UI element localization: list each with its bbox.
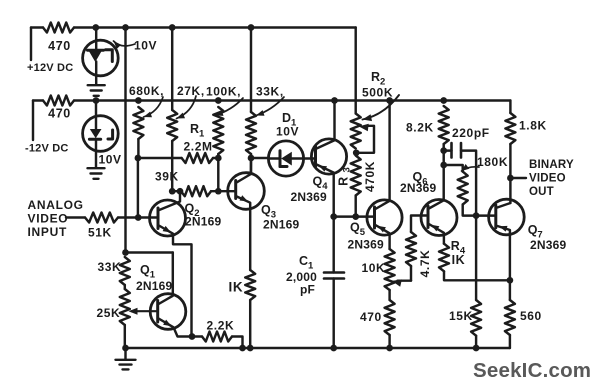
- svg-text:100K,: 100K,: [206, 85, 241, 99]
- resistor 560: [505, 300, 515, 335]
- type label 2N169 (Q1): [136, 279, 172, 293]
- Q2 emitter: [158, 225, 192, 337]
- wire 100K node down: [217, 158, 219, 191]
- capacitor C1 plates: [324, 273, 344, 279]
- svg-text:IK: IK: [452, 253, 466, 267]
- node junction C1 / ground bus: [330, 345, 337, 352]
- wire 180K top lead: [444, 165, 463, 172]
- value label 2000pF: [286, 270, 317, 297]
- watermark SeekIC.com: [473, 359, 591, 382]
- transistor Q7 circle: [489, 199, 525, 235]
- svg-text:pF: pF: [300, 283, 315, 297]
- Q6 base bar: [427, 206, 430, 228]
- wire 25K bottom to ground bus: [124, 325, 126, 348]
- transistor Q3 circle: [228, 173, 265, 210]
- wire divider link to Q1 collector: [126, 251, 173, 253]
- arrow 100K label: [215, 98, 243, 116]
- wire 2.2M right lead: [213, 157, 218, 159]
- wire 2.2M left lead: [138, 157, 182, 159]
- resistor 1.8K: [505, 113, 515, 144]
- reference label D1: [282, 111, 297, 129]
- reference label Q5: [350, 221, 366, 239]
- svg-text:2N169: 2N169: [263, 218, 299, 232]
- node junction Q2 collector / 39K: [177, 188, 184, 195]
- Q3 emitter: [236, 196, 251, 270]
- reference label Q7: [528, 223, 543, 241]
- resistor 180K: [458, 172, 468, 205]
- wire binary video out: [510, 177, 526, 179]
- wire 1.8K to Q7 collector: [509, 144, 511, 203]
- svg-text:2N369: 2N369: [291, 190, 327, 204]
- node junction -10V rail / zener 2: [93, 97, 100, 104]
- wire C1 bottom: [332, 279, 334, 349]
- resistor 470 (Q5 emitter): [385, 300, 395, 335]
- arrow 680K label: [144, 97, 164, 117]
- wire 680K bottom: [137, 139, 139, 158]
- wire 39K left lead: [172, 190, 181, 192]
- wire C1 top: [332, 217, 334, 273]
- node junction divider top: [122, 249, 129, 256]
- wire +12VDC input stub: [30, 28, 32, 61]
- svg-text:2N169: 2N169: [185, 215, 221, 229]
- D1 bent foot: [280, 165, 287, 168]
- svg-text:470: 470: [48, 107, 71, 121]
- Q3 emitter arrowhead: [240, 195, 249, 201]
- node junction 100K / 2.2M line: [215, 155, 222, 162]
- reference label Q4: [313, 175, 329, 193]
- wire 4.7K to Q6 base: [411, 216, 428, 233]
- diode D1 10V circle: [268, 141, 303, 176]
- resistor 33K (rail): [246, 112, 256, 154]
- svg-text:4.7K: 4.7K: [418, 250, 432, 278]
- value label 10K: [362, 261, 386, 275]
- wire 10K to 470: [388, 290, 390, 300]
- type label 2N369 (Q6): [400, 181, 436, 195]
- wire D1 line: [251, 157, 269, 159]
- node junction top rail x=251: [248, 24, 255, 31]
- value label 10V (D1): [276, 125, 299, 139]
- zener diode 10V (-12V regulator) circle: [83, 116, 119, 152]
- wire 33K bottom to D1 node: [250, 154, 252, 158]
- ground (below zener 1): [88, 85, 105, 96]
- value label 10V (zener 2): [99, 153, 122, 167]
- Q2 emitter arrowhead: [163, 226, 171, 233]
- svg-text:-12V DC: -12V DC: [25, 143, 69, 155]
- resistor 470 (+12V feed): [43, 23, 74, 33]
- node junction Q5 collector / -10V rail: [386, 97, 393, 104]
- wire top +10V rail: [74, 26, 356, 28]
- value label 15K: [449, 309, 473, 323]
- wire -12V lead: [33, 99, 43, 101]
- resistor 100K: [213, 107, 223, 154]
- svg-text:OUT: OUT: [529, 186, 554, 198]
- node junction 1K / ground bus: [247, 345, 254, 352]
- type label 2N169 (Q3): [263, 218, 299, 232]
- svg-text:470: 470: [48, 39, 71, 53]
- node junction 8.2K / 180K: [440, 162, 447, 169]
- zener diode 10V (+12V regulator) circle: [83, 40, 119, 76]
- value label 8.2K: [406, 121, 434, 135]
- svg-text:2N369: 2N369: [400, 181, 436, 195]
- svg-text:180K: 180K: [477, 155, 508, 169]
- potentiometer R2 500K: [351, 114, 361, 149]
- svg-text:51K: 51K: [88, 226, 112, 240]
- reference label R1: [190, 122, 205, 140]
- resistor R4 1K: [439, 244, 449, 272]
- wire +10V drop x=251: [250, 28, 252, 113]
- value label 51K: [88, 226, 112, 240]
- node junction 680K top: [135, 97, 142, 104]
- zener 2 anode wire: [95, 139, 97, 168]
- node junction Q1/Q2 emitters: [189, 333, 196, 340]
- node junction 33K / D1 line: [248, 155, 255, 162]
- wire input lead: [66, 216, 85, 218]
- node junction 8.2K / 220pF: [440, 147, 447, 154]
- ground (main bus): [116, 348, 136, 369]
- zener 1 cathode bar: [88, 49, 104, 52]
- Q7 base bar: [494, 205, 497, 228]
- wire 33K-25K link: [124, 285, 126, 289]
- node junction top rail x=125: [122, 24, 129, 31]
- Q1 emitter arrowhead: [163, 320, 171, 327]
- resistor 470 (-12V feed): [43, 96, 74, 106]
- wire 2.2K to ground bus: [232, 337, 243, 349]
- reference label R4: [451, 239, 466, 257]
- svg-text:470K: 470K: [363, 161, 377, 192]
- value label 1K (Q3): [229, 280, 244, 295]
- Q5 emitter arrowhead (PNP): [378, 226, 386, 233]
- Q1 wiper arm from base: [132, 310, 158, 312]
- terminal label BINARY VIDEO OUT: [529, 159, 574, 198]
- Q4 collector: [316, 101, 335, 150]
- reference label R2: [371, 70, 385, 88]
- node junction Q7 base: [473, 212, 480, 219]
- value label 180K: [477, 155, 508, 169]
- node junction Q4 emitter / Q5 base: [330, 213, 337, 220]
- zener 1 bent bracket: [106, 50, 113, 62]
- svg-text:SeekIC.com: SeekIC.com: [473, 359, 591, 382]
- node junction Q4 collector / -10V rail: [331, 97, 338, 104]
- wire -12VDC input stub: [32, 101, 34, 141]
- wire +10V drop x=125.5: [124, 28, 126, 253]
- transistor Q5 circle: [367, 200, 402, 235]
- value label 1K (R4): [452, 253, 466, 267]
- Q7 emitter: [496, 226, 510, 281]
- svg-text:33K: 33K: [98, 260, 122, 274]
- value label 680K: [129, 84, 164, 98]
- resistor 2.2K: [202, 332, 232, 342]
- svg-text:IK: IK: [229, 280, 244, 295]
- node junction R3 / Q5 base: [352, 213, 359, 220]
- resistor R1 2.2M: [182, 153, 213, 163]
- Q3 base bar: [234, 181, 237, 199]
- svg-text:2.2M: 2.2M: [184, 140, 213, 154]
- resistor 27K: [167, 110, 177, 141]
- svg-text:1.8K: 1.8K: [519, 119, 547, 133]
- wire 33K node to Q3 collector: [250, 158, 252, 174]
- node junction 27K / 39K: [169, 188, 176, 195]
- svg-text:R: R: [337, 176, 351, 186]
- svg-text:2N369: 2N369: [348, 238, 384, 252]
- transistor Q2 circle: [150, 200, 186, 236]
- value label 560: [520, 309, 542, 323]
- svg-text:BINARY: BINARY: [529, 159, 574, 171]
- terminal label ANALOG VIDEO INPUT: [28, 198, 84, 239]
- svg-text:220pF: 220pF: [452, 126, 490, 140]
- svg-text:2N369: 2N369: [530, 238, 566, 252]
- zener 2 cathode bar: [89, 138, 100, 141]
- Q2 collector: [158, 191, 180, 210]
- type label 2N369 (Q4): [291, 190, 327, 204]
- Q5 collector: [375, 101, 390, 210]
- node junction Q7 emitter / R4 / 560: [507, 277, 514, 284]
- Q7 emitter arrowhead (PNP): [499, 226, 508, 232]
- wire 470 to ground bus: [388, 335, 390, 348]
- svg-text:10V: 10V: [99, 153, 122, 167]
- wire Q7 emitter to 560: [509, 280, 511, 300]
- node junction 15K / ground bus: [473, 345, 480, 352]
- wire 560 to ground bus: [509, 335, 511, 348]
- svg-text:25K: 25K: [97, 306, 121, 320]
- value label 470 (Q5): [360, 310, 382, 324]
- value label 470 (+12V): [48, 39, 71, 53]
- R2 wiper link: [358, 126, 375, 153]
- wire 51K to Q2 base: [118, 216, 158, 218]
- value label 10V (zener 1): [134, 39, 157, 53]
- wire R4 bottom to Q7 emitter node: [444, 271, 510, 280]
- node junction top rail / zener 1: [92, 24, 99, 31]
- Q1 emitter: [158, 318, 192, 337]
- value label 39K: [155, 170, 179, 184]
- value label 1.8K: [519, 119, 547, 133]
- ground (below zener 2): [88, 168, 105, 179]
- resistor 15K: [471, 300, 481, 336]
- D1 cathode bar: [279, 151, 282, 167]
- node junction R2 bottom: [353, 149, 360, 156]
- wire 100K bottom: [217, 154, 219, 158]
- Q5 emitter: [375, 225, 390, 250]
- wire 4.7K bottom link: [410, 266, 412, 281]
- resistor 1K (Q3): [245, 270, 255, 300]
- node junction top rail x=172: [169, 24, 176, 31]
- svg-text:39K: 39K: [155, 170, 179, 184]
- value label 33K (rail): [256, 85, 284, 99]
- value label 2.2M: [184, 140, 213, 154]
- arrow 33K label: [256, 97, 284, 116]
- value label 2.2K: [207, 319, 235, 333]
- svg-text:2.2K: 2.2K: [207, 319, 235, 333]
- terminal label -12V DC: [25, 143, 69, 155]
- transistor Q6 circle: [421, 200, 457, 236]
- D1 triangle: [281, 152, 292, 166]
- wire +10V drop to R2: [354, 28, 356, 114]
- reference label R3 (rotated): [337, 167, 353, 186]
- node junction 680K / 2.2M line: [135, 155, 142, 162]
- svg-text:+12V DC: +12V DC: [27, 62, 73, 74]
- svg-text:ANALOG: ANALOG: [28, 198, 84, 212]
- Q4 emitter: [316, 164, 334, 217]
- wire 39K right lead: [211, 190, 236, 192]
- zener 1 triangle: [89, 51, 102, 62]
- reference label Q6: [413, 170, 428, 188]
- svg-text:VIDEO: VIDEO: [28, 212, 69, 226]
- node junction 470 / ground bus: [386, 345, 393, 352]
- resistor 680K: [133, 107, 143, 139]
- resistor 33K (divider): [120, 257, 130, 285]
- svg-text:33K,: 33K,: [256, 85, 284, 99]
- value label 4.7K (rotated): [418, 250, 432, 278]
- wire +10V drop x=172: [171, 28, 173, 111]
- value label 470 (-12V): [48, 107, 71, 121]
- 10K wiper arrowhead: [392, 279, 402, 286]
- zener 2 bent bracket: [108, 130, 113, 139]
- reference label Q2: [185, 202, 200, 220]
- value label 470K (rotated): [363, 161, 377, 192]
- svg-text:2N169: 2N169: [136, 279, 172, 293]
- Q6 emitter: [428, 224, 444, 244]
- Q6 emitter arrowhead (PNP): [431, 225, 439, 232]
- wire +12V lead: [31, 26, 43, 28]
- wire ground bus: [126, 347, 510, 349]
- zener 2 triangle: [90, 129, 102, 138]
- Q6 collector: [428, 144, 444, 209]
- wire Q7 base node down: [475, 216, 477, 300]
- node junction 100K line / 39K right: [215, 188, 222, 195]
- wire 220pF left: [444, 149, 452, 151]
- wire 180K bottom lead: [463, 205, 476, 216]
- svg-text:VIDEO: VIDEO: [529, 173, 566, 185]
- resistor 51K: [85, 213, 118, 223]
- wire 1K to ground bus: [249, 300, 251, 348]
- arrow 180K label: [462, 164, 480, 171]
- Q3 collector: [236, 158, 251, 183]
- capacitor 220pF plates: [452, 143, 462, 158]
- svg-text:8.2K: 8.2K: [406, 121, 434, 135]
- Q5 base bar: [373, 207, 376, 228]
- arrow 27K label: [177, 96, 197, 119]
- reference label Q1: [140, 263, 156, 281]
- Q1 base bar: [156, 301, 159, 323]
- Q7 collector: [496, 203, 511, 208]
- Q1 wiper arrowhead (25K): [129, 308, 138, 315]
- value label 220pF: [452, 126, 490, 140]
- wire 27K bottom to 39K node: [171, 141, 173, 191]
- node junction ground bus / divider: [122, 345, 129, 352]
- wire D1 cathode lead: [292, 157, 316, 159]
- potentiometer 25K: [120, 289, 130, 325]
- 10K wiper link: [398, 279, 412, 281]
- value label 25K: [97, 306, 121, 320]
- svg-text:15K: 15K: [449, 309, 473, 323]
- svg-text:INPUT: INPUT: [28, 225, 68, 239]
- zener 1 anode wire: [95, 62, 97, 85]
- value label 27K: [177, 84, 205, 98]
- wire Q4 emitter to Q5 base: [334, 215, 375, 217]
- arrow 10V to zener 1: [114, 41, 136, 49]
- value label 500K: [362, 86, 393, 100]
- wire Q7 base lead: [476, 214, 496, 216]
- Q2 base bar: [157, 208, 160, 229]
- wire emitters to 2.2K: [192, 335, 202, 337]
- zener 1 cathode wire: [95, 28, 97, 51]
- svg-text:10K: 10K: [362, 261, 386, 275]
- type label 2N369 (Q7): [530, 238, 566, 252]
- R2 wiper arrowhead: [359, 124, 369, 132]
- wire D1 anode lead (inside circle): [269, 157, 280, 159]
- value label 33K (divider): [98, 260, 122, 274]
- wire R3 bottom: [354, 196, 356, 217]
- wire -10V rail corner to 1.8K: [509, 101, 511, 114]
- svg-text:560: 560: [520, 309, 542, 323]
- resistor R3 470K: [351, 156, 361, 196]
- node junction binary out: [507, 175, 514, 182]
- node junction 680K line / Q2 base: [135, 214, 142, 221]
- Q4 emitter arrowhead (PNP): [319, 166, 328, 172]
- transistor Q4 circle: [311, 139, 346, 174]
- svg-text:680K,: 680K,: [129, 84, 164, 98]
- type label 2N169 (Q2): [185, 215, 221, 229]
- svg-text:10V: 10V: [276, 125, 299, 139]
- wire -10V rail: [74, 99, 510, 101]
- type label 2N369 (Q5): [348, 238, 384, 252]
- svg-text:27K,: 27K,: [177, 84, 205, 98]
- resistor 4.7K: [406, 232, 416, 266]
- Q1 collector: [158, 253, 173, 305]
- resistor 39K: [181, 186, 211, 196]
- reference label Q3: [261, 203, 276, 221]
- transistor Q1 circle: [150, 294, 186, 330]
- potentiometer 10K: [385, 249, 395, 290]
- svg-text:470: 470: [360, 310, 382, 324]
- node junction 8.2K top / -10V rail: [440, 97, 447, 104]
- wire 680K node down to Q2 base: [137, 158, 139, 218]
- wire 220pF right to Q7 base node: [461, 151, 476, 216]
- resistor 8.2K: [439, 106, 449, 144]
- arrow 500K label: [363, 95, 400, 121]
- node junction 2.2K / ground bus: [239, 345, 246, 352]
- zener 2 cathode wire: [95, 101, 97, 130]
- svg-text:10V: 10V: [134, 39, 157, 53]
- terminal label +12V DC: [27, 62, 73, 74]
- Q4 base bar: [314, 147, 317, 167]
- value label 100K: [206, 85, 241, 99]
- wire 15K to ground bus: [475, 336, 477, 348]
- node junction 100K top: [215, 97, 222, 104]
- reference label C1: [299, 254, 314, 272]
